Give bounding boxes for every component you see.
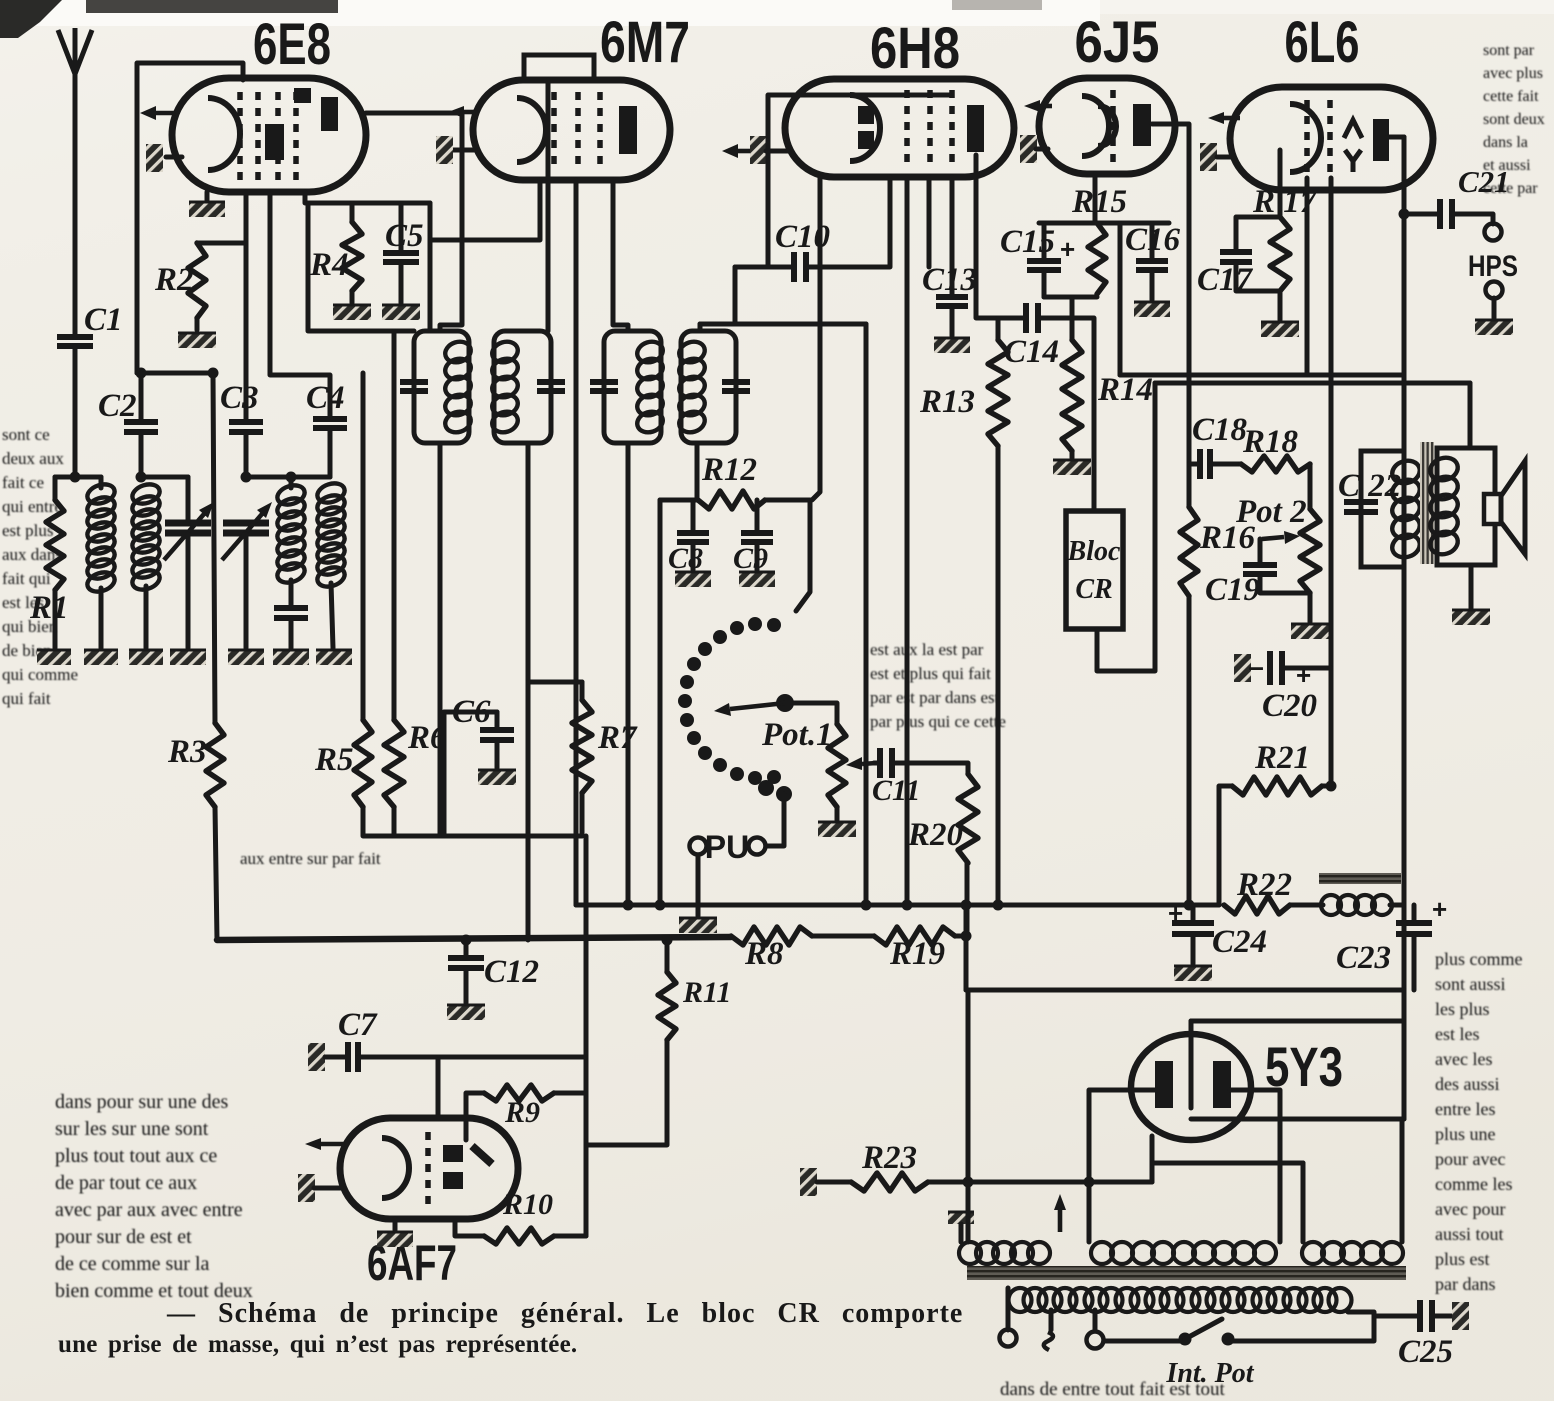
- svg-text:sont par: sont par: [1483, 42, 1535, 59]
- resistor R4: [342, 222, 362, 291]
- wire C17 bottom: [1236, 262, 1280, 291]
- wire C16 bottom lead: [1150, 270, 1155, 300]
- terminal circle PU left: [690, 838, 707, 855]
- wire R15C15 bottom: [1044, 295, 1097, 300]
- junction dot C21 branch: [1399, 209, 1410, 220]
- Pot2 wiper arrow: [1262, 537, 1284, 539]
- wire R1 top lead: [53, 477, 58, 500]
- 6E8 cathode: [208, 98, 240, 170]
- tube V2 6M7 envelope: [473, 80, 670, 180]
- svg-text:aussi tout: aussi tout: [1435, 1224, 1504, 1244]
- power transformer HT winding left: [959, 1242, 981, 1264]
- Pot1 wiper arrow: [862, 763, 876, 764]
- 6H8 grid 1: [904, 90, 910, 168]
- wire filament link: [1152, 1161, 1303, 1166]
- 6AF7 target 2: [443, 1172, 463, 1189]
- wire padder to ground: [289, 618, 294, 648]
- wire R21 left lead: [1219, 786, 1232, 905]
- wire Pot1 bottom lead: [835, 807, 840, 820]
- svg-text:C5: C5: [385, 218, 424, 254]
- 6E8 cathode pad lead: [166, 155, 182, 160]
- wire Pot1 wiper to C11: [874, 761, 879, 766]
- svg-text:R1: R1: [29, 590, 69, 626]
- svg-text:C18: C18: [1192, 412, 1247, 448]
- capacitor C3: [229, 422, 263, 432]
- wire R12 top right: [765, 498, 810, 503]
- 6AF7 grid: [425, 1132, 431, 1204]
- ground pad R17: [1261, 322, 1299, 337]
- 6M7 grid 1: [551, 92, 557, 168]
- svg-text:une prise de masse, qui n’est: une prise de masse, qui n’est pas représ…: [58, 1331, 577, 1358]
- wire HT left pad lead: [959, 1224, 964, 1242]
- svg-text:C12: C12: [484, 954, 539, 990]
- wire fil winding lead: [1301, 1163, 1306, 1242]
- svg-text:R2: R2: [154, 262, 194, 298]
- svg-text:R18: R18: [1242, 424, 1298, 460]
- wire R19 right lead: [955, 934, 966, 939]
- wire R15C15 to C14 node: [1070, 297, 1075, 318]
- 6M7 cathode pad lead: [452, 148, 476, 153]
- terminal circle mains 1: [1000, 1330, 1017, 1347]
- 6E8 grid 4: [293, 92, 299, 180]
- capacitor C6: [480, 730, 514, 740]
- wire C4 bottom lead: [328, 428, 333, 477]
- switch Int.Pot arm: [1185, 1319, 1222, 1339]
- wire 6M7 cathode drop: [574, 180, 579, 905]
- svg-text:C25: C25: [1398, 1334, 1453, 1370]
- wire R7 top lead: [580, 682, 585, 700]
- wire CV2 bottom lead: [244, 534, 249, 648]
- 6J5 grid lead arrow: [1040, 104, 1052, 109]
- capacitor C4: [313, 419, 347, 428]
- wire R16 bottom drop: [1187, 596, 1192, 905]
- wire C8 bottom lead: [691, 542, 696, 570]
- junction dot R19-R20: [961, 931, 972, 942]
- 6L6 anode lead: [1388, 135, 1404, 140]
- svg-text:C19: C19: [1205, 572, 1260, 608]
- capacitor C25: [1420, 1300, 1432, 1332]
- wire R17 bottom lead: [1278, 291, 1283, 320]
- svg-text:R6: R6: [407, 720, 447, 756]
- wire plate column x1404: [1402, 137, 1407, 1119]
- capacitor C19: [1243, 565, 1277, 574]
- wire C10 left: [735, 265, 792, 270]
- resistor R12: [698, 491, 765, 509]
- ground pad L4: [316, 650, 352, 665]
- wire L4 bottom lead: [331, 583, 333, 648]
- 6J5 pad-tube lead: [1036, 147, 1048, 152]
- wire C19 top lead: [1258, 539, 1263, 565]
- capacitor C8: [677, 533, 709, 542]
- wire y373 node: [137, 371, 213, 376]
- svg-text:R11: R11: [682, 976, 731, 1009]
- resistor R2: [188, 243, 206, 318]
- wire L3 bottom lead: [289, 580, 294, 608]
- resistor R14: [1062, 340, 1082, 451]
- capacitor padding cap: [274, 608, 308, 618]
- resistor R19: [874, 927, 955, 945]
- wire 6M7 screen feed: [430, 180, 540, 240]
- 6L6 cathode: [1290, 104, 1321, 172]
- potentiometer Pot2: [1300, 509, 1320, 593]
- tube V6 6AF7 envelope: [340, 1118, 518, 1219]
- wire R6 column: [392, 331, 397, 720]
- svg-text:C21: C21: [1458, 164, 1510, 199]
- svg-text:R7: R7: [597, 720, 638, 756]
- wire T1 sec grid lead: [546, 80, 551, 331]
- wire C2 bottom lead: [139, 432, 144, 477]
- ground pad L3: [273, 650, 309, 665]
- svg-text:C3: C3: [220, 380, 259, 416]
- capacitor C22: [1344, 502, 1378, 512]
- rotary switch S1 contacts: [767, 770, 781, 784]
- wire 6AF7 cathode lead: [393, 1219, 398, 1230]
- wire C5 bottom lead: [399, 262, 404, 303]
- wire terminal2 lead: [1049, 1310, 1054, 1330]
- ground pad C6: [478, 770, 516, 785]
- tube V4 6J5 envelope: [1039, 78, 1175, 174]
- filter choke core: [1319, 873, 1401, 884]
- ground pad Pot2: [1291, 624, 1329, 639]
- capacitor C1: [57, 337, 93, 346]
- wire Pot2 bottom lead: [1308, 593, 1313, 622]
- 6AF7 target 1: [443, 1145, 463, 1162]
- wire R17 top lead: [1278, 150, 1283, 217]
- 6M7 cathode: [517, 98, 546, 162]
- wire B+ top link: [1191, 1019, 1404, 1024]
- wire R13 bottom drop: [996, 446, 1001, 905]
- IF transformer T1 secondary: [494, 331, 551, 443]
- wire T2 sec bottom: [695, 443, 700, 500]
- rotary switch wiper arm: [730, 703, 785, 709]
- wire C23 bottom lead: [1412, 934, 1417, 990]
- svg-text:CR: CR: [1075, 574, 1112, 605]
- ground pad L2: [129, 650, 163, 665]
- wire C1 to tuner node: [73, 346, 78, 477]
- wire 6E8 anode to IFT1: [366, 113, 462, 331]
- wire group4 top stub: [291, 475, 330, 480]
- wire R9 right lead: [554, 1091, 586, 1096]
- wire C15 bottom lead: [1042, 270, 1047, 297]
- 5Y3 anode 2: [1213, 1061, 1231, 1108]
- IF transformer T1 primary: [414, 331, 469, 443]
- primary tap arrow: [1058, 1210, 1063, 1232]
- ground pad C13: [934, 338, 970, 353]
- antenna: [58, 28, 92, 74]
- 6H8 pad-tube lead: [766, 149, 788, 154]
- wire secondary bottom: [1469, 565, 1474, 608]
- ground pad at 6J5 left: [1020, 135, 1037, 163]
- 6M7 plate: [619, 106, 637, 154]
- 6L6 grid 2: [1327, 100, 1333, 178]
- wire R3 bottom lead: [215, 807, 217, 940]
- svg-text:R23: R23: [861, 1140, 917, 1176]
- svg-text:6H8: 6H8: [870, 16, 960, 81]
- terminal circle HPS bottom: [1486, 282, 1503, 299]
- wire C14 right lead: [1038, 316, 1072, 321]
- wire 6E8 top loop: [137, 63, 243, 373]
- svg-text:+: +: [1432, 894, 1447, 924]
- svg-text:sur les sur une sont: sur les sur une sont: [55, 1118, 209, 1140]
- svg-text:avec par aux avec entre: avec par aux avec entre: [55, 1199, 243, 1221]
- capacitor C17: [1220, 252, 1252, 262]
- capacitor C24: [1172, 923, 1214, 934]
- wire mains switch line: [1104, 1339, 1180, 1344]
- scan smudge top-left corner: [0, 0, 62, 38]
- wire fil winding right lead: [1400, 1119, 1405, 1242]
- svg-text:C2: C2: [98, 388, 137, 424]
- svg-text:+: +: [1060, 234, 1075, 264]
- output transformer core: [1420, 442, 1434, 564]
- Bloc CR box: [1066, 511, 1123, 629]
- svg-text:Pot 2: Pot 2: [1235, 494, 1307, 530]
- 6M7 grid lead arrow: [464, 110, 478, 115]
- svg-text:C23: C23: [1336, 940, 1391, 976]
- svg-text:C24: C24: [1212, 924, 1267, 960]
- svg-text:Bloc: Bloc: [1067, 536, 1121, 567]
- wire C23 top lead: [1412, 905, 1417, 923]
- inductor L2: [130, 481, 162, 507]
- 6E8 grid-cap lead arrow: [156, 111, 176, 116]
- resistor R16: [1180, 507, 1198, 596]
- wire C10 left drop: [733, 267, 738, 324]
- capacitor C20: [1270, 651, 1282, 685]
- svg-text:dans pour sur une des: dans pour sur une des: [55, 1091, 229, 1113]
- ground pad C5: [382, 305, 420, 320]
- output transformer secondary box: [1437, 448, 1495, 565]
- svg-text:C11: C11: [872, 774, 920, 807]
- svg-text:fait ce: fait ce: [2, 473, 44, 492]
- resistor R3: [206, 723, 224, 807]
- svg-text:R5: R5: [314, 742, 354, 778]
- wire HPS ground lead: [1492, 298, 1497, 318]
- tube V3 6H8 envelope: [785, 79, 1014, 177]
- wire CV1 top lead: [186, 477, 191, 524]
- resistor R21: [1232, 777, 1322, 795]
- 6J5 cathode: [1082, 96, 1109, 156]
- svg-text:par plus qui ce cette: par plus qui ce cette: [870, 712, 1006, 731]
- svg-text:plus une: plus une: [1435, 1124, 1496, 1144]
- svg-text:les plus: les plus: [1435, 999, 1490, 1019]
- wire choke to plate column: [1390, 903, 1404, 908]
- wire 6E8 triode anode lead: [270, 192, 330, 417]
- 6E8 grid1 leak stub: [197, 241, 246, 246]
- 6E8 grid 3: [275, 92, 281, 180]
- svg-text:pour sur de est et: pour sur de est et: [55, 1226, 192, 1248]
- wire tuner group3 top: [246, 475, 291, 480]
- wire 6L6 cathode line: [1329, 178, 1334, 786]
- wire R1 bottom lead: [53, 590, 58, 648]
- resistor R23: [851, 1173, 928, 1191]
- scan smudge top mid: [952, 0, 1042, 10]
- ground pad R14: [1053, 460, 1091, 475]
- power transformer core: [967, 1266, 1406, 1280]
- svg-text:6L6: 6L6: [1285, 10, 1360, 75]
- power transformer primary: [1009, 1288, 1032, 1312]
- wire T2 sec top: [698, 324, 703, 331]
- tube V5 6L6 envelope: [1230, 87, 1433, 190]
- wire R22 to choke: [1290, 903, 1323, 908]
- wire R12 box left: [658, 500, 663, 905]
- wire L3 top lead: [289, 477, 294, 488]
- wire AVC drop x866: [864, 324, 869, 905]
- ground pad at 6H8 left: [750, 136, 767, 164]
- capacitor C12: [448, 958, 484, 968]
- svg-text:R12: R12: [701, 452, 757, 488]
- resistor R10: [484, 1228, 554, 1244]
- filter choke: [1321, 895, 1341, 915]
- wire C12 top lead: [464, 940, 469, 958]
- svg-text:qui fait: qui fait: [2, 689, 51, 708]
- wire C18 to R18: [1211, 462, 1241, 467]
- svg-text:+: +: [1296, 660, 1311, 690]
- svg-text:–: –: [1248, 651, 1264, 682]
- svg-text:par dans: par dans: [1435, 1274, 1495, 1294]
- svg-text:C20: C20: [1262, 688, 1317, 724]
- 6AF7 lead arrow: [321, 1142, 345, 1147]
- 6H8 grid lead arrow: [738, 149, 750, 154]
- ground pad HPS: [1475, 320, 1513, 335]
- terminal circle mains 2: [1087, 1332, 1104, 1349]
- svg-text:dans la: dans la: [1483, 134, 1528, 151]
- wire PU contact lead: [766, 794, 784, 846]
- 6H8 top-cap wire: [768, 95, 950, 267]
- wire C10 right: [808, 177, 890, 267]
- wire tuner group2 top: [141, 475, 188, 480]
- 6AF7 pad lead: [314, 1186, 342, 1191]
- rotary switch wiper dot: [776, 694, 794, 712]
- ground pad C8: [675, 572, 711, 587]
- svg-text:6M7: 6M7: [600, 10, 690, 75]
- resistor R7: [572, 700, 592, 793]
- 6M7 grid 2: [575, 92, 581, 168]
- capacitor C9: [741, 533, 773, 542]
- ground pad L1: [84, 650, 118, 665]
- ground pad C16: [1134, 302, 1170, 317]
- svg-text:6J5: 6J5: [1075, 10, 1160, 75]
- 6L6 plate: [1373, 119, 1389, 161]
- wire R21 right lead: [1322, 784, 1331, 789]
- wire R23 to rectifier: [928, 1180, 1152, 1185]
- svg-text:cette fait: cette fait: [1483, 88, 1539, 105]
- junction dots bus905: [623, 900, 634, 911]
- wire R19 to bus990: [964, 905, 969, 990]
- svg-text:avec pour: avec pour: [1435, 1199, 1505, 1219]
- wire 6H8 anode down: [976, 155, 998, 318]
- resistor R20: [958, 774, 978, 863]
- wire C7 left lead: [325, 1055, 345, 1060]
- wire 5Y3 right plate lead: [1230, 1090, 1280, 1242]
- wire tuner group1 top: [55, 475, 101, 480]
- 6L6 grid lead arrow: [1224, 116, 1240, 121]
- wire C7 to column: [359, 1055, 586, 1060]
- wire bus990 right drop: [1402, 990, 1407, 1021]
- svg-text:R13: R13: [919, 384, 975, 420]
- wire C24 top lead: [1191, 905, 1196, 923]
- 6J5 plate: [1133, 104, 1151, 146]
- svg-text:qui comme: qui comme: [2, 665, 78, 684]
- svg-text:est les: est les: [1435, 1024, 1480, 1044]
- svg-text:R3: R3: [167, 734, 207, 770]
- wire C14 node to R14: [1070, 297, 1075, 340]
- svg-text:R15: R15: [1071, 184, 1127, 220]
- ground pad C7: [308, 1043, 325, 1071]
- capacitor C14: [1026, 303, 1038, 333]
- wire C9 top lead: [755, 500, 760, 533]
- resistor R18: [1241, 456, 1310, 472]
- wire R4 top lead: [350, 203, 355, 222]
- svg-text:aux entre sur par fait: aux entre sur par fait: [240, 849, 381, 868]
- wire R10 left lead: [455, 1222, 484, 1236]
- switch Int.Pot dot B: [1222, 1333, 1235, 1346]
- power transformer filament winding: [1302, 1242, 1324, 1264]
- wire C17 branch: [1236, 217, 1280, 252]
- svg-text:comme les: comme les: [1435, 1174, 1512, 1194]
- wire R11 top lead: [665, 940, 670, 972]
- inductor L4: [315, 480, 347, 506]
- wire primary to C25: [1374, 1314, 1418, 1319]
- wire bloc vertical x1120: [1118, 223, 1123, 375]
- wire C2 top lead: [139, 373, 144, 422]
- svg-text:des aussi: des aussi: [1435, 1074, 1500, 1094]
- wire C6 top lead: [495, 712, 500, 730]
- wire antenna down: [73, 74, 78, 337]
- ground pad at 6M7 left: [436, 136, 453, 164]
- svg-text:entre les: entre les: [1435, 1099, 1495, 1119]
- capacitor C16: [1136, 261, 1168, 270]
- wire x968 to winding: [966, 1182, 971, 1242]
- wire T2 pri top to 6M7 anode: [613, 180, 628, 331]
- 6L6 grid 1: [1304, 100, 1310, 178]
- wire terminal3 lead: [1093, 1310, 1098, 1331]
- wire R11 bottom lead: [586, 1040, 667, 1145]
- svg-text:avec les: avec les: [1435, 1049, 1492, 1069]
- 6AF7 deflector: [472, 1146, 492, 1164]
- wire C16 top lead: [1150, 223, 1155, 261]
- wire 5Y3 left plate lead: [1089, 1090, 1157, 1242]
- wire R7 top feed: [528, 680, 582, 685]
- svg-text:avec plus: avec plus: [1483, 65, 1543, 82]
- svg-text:R21: R21: [1254, 740, 1310, 776]
- variable capacitor CV2: [223, 523, 269, 533]
- wire R7 bottom lead: [580, 793, 585, 836]
- wire cathode rail y836: [363, 807, 582, 836]
- wire R8-R19: [812, 934, 874, 939]
- wire CV1 bottom lead: [186, 534, 191, 648]
- wire L1 top lead: [99, 477, 104, 488]
- 6H8 diode plate 1: [858, 106, 874, 124]
- resistor R6: [384, 720, 404, 807]
- 6H8 diode plate 2: [858, 131, 874, 149]
- terminal squiggle: [1044, 1332, 1053, 1350]
- resistor R17: [1270, 217, 1290, 291]
- svg-text:par est par dans est: par est par dans est: [870, 688, 1000, 707]
- wire 6L6 g1 drop: [1305, 178, 1310, 375]
- wire 5Y3 top to bus: [1189, 1021, 1194, 1036]
- ground pad speaker: [1452, 610, 1490, 625]
- 6J5 grid: [1110, 90, 1116, 162]
- 6E8 anode blob top: [294, 88, 311, 103]
- power transformer HV winding: [1091, 1242, 1113, 1264]
- potentiometer Pot1: [828, 724, 846, 807]
- 6M7 grid cap box: [524, 55, 594, 79]
- capacitor C23: [1396, 923, 1432, 934]
- wire R12 top left: [660, 498, 698, 503]
- svg-text:Pot.1: Pot.1: [761, 717, 833, 753]
- wire R23 left lead: [817, 1180, 851, 1185]
- capacitor C13: [936, 297, 968, 306]
- wire C6 branch: [444, 712, 497, 836]
